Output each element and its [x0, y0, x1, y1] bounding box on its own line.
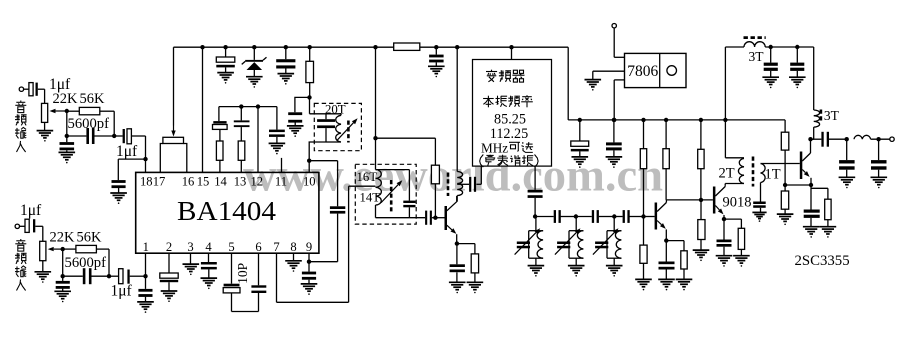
pin 2 label — [166, 240, 172, 254]
capacitor electrolytic pin14 — [213, 121, 228, 129]
transistor Q3 2SC3355 base bar — [800, 152, 803, 180]
capacitor Q3 emitter — [804, 185, 820, 227]
capacitor Q1 emitter — [450, 244, 465, 283]
pin 11 label — [275, 175, 287, 189]
ground pot ch2 — [35, 272, 52, 283]
pin 15 label — [197, 175, 210, 189]
IC U1 BA1404 body — [136, 172, 319, 253]
wire Q2 collector to 9018 base — [666, 199, 713, 201]
node V+ elco — [578, 118, 582, 122]
node rail box — [509, 45, 513, 49]
pin 9 label — [306, 240, 312, 254]
ground Q3 emitter cap — [803, 227, 820, 238]
ground Q2 emitter res — [676, 279, 693, 290]
resistor feed 20T — [306, 47, 314, 97]
node tank3 — [612, 214, 616, 218]
capacitor electrolytic pin2 — [160, 253, 178, 291]
capacitor electrolytic rail — [216, 47, 235, 72]
resistor Q2 collector load — [663, 120, 669, 200]
wire 56K right down ch2 — [108, 249, 110, 276]
pin 10 label — [303, 175, 316, 189]
label 5600pf ch2 — [65, 255, 107, 271]
svg-text:20T: 20T — [325, 103, 346, 117]
wire pins5-6 loop — [232, 311, 259, 313]
wire 1T top to Q3 base — [761, 163, 800, 165]
wire box top to rail — [511, 47, 513, 59]
wire cap line lower — [309, 214, 338, 262]
tank rail seg1 — [535, 216, 554, 218]
wire SAW riser — [480, 166, 482, 184]
svg-text:56K: 56K — [77, 230, 103, 246]
potentiometer 22K ch1 — [42, 103, 67, 122]
inductor 3T vertical — [811, 47, 820, 139]
indicator circle 7806 — [667, 66, 677, 76]
ground pin4 — [201, 278, 218, 289]
node tank1 — [533, 214, 537, 218]
label 声表谐振 — [480, 155, 538, 168]
wire pin1 riser — [145, 253, 147, 276]
svg-text:1μf: 1μf — [116, 143, 138, 160]
resistor Q3 emitter — [811, 188, 831, 226]
capacitor out shunt 1 — [839, 139, 855, 177]
pin 1 label — [143, 240, 149, 254]
wiper arrow from rail — [171, 47, 175, 136]
wire V+ up right — [724, 47, 726, 120]
capacitor 5600pf ch1 — [67, 128, 114, 144]
capacitor mixer inject — [528, 190, 543, 217]
wire 56K right down ch1 — [113, 111, 115, 136]
label 1μf ch1 — [49, 76, 71, 93]
wire pot bottom ch2 — [42, 261, 44, 272]
svg-text:1μf: 1μf — [111, 283, 133, 300]
svg-text:16: 16 — [182, 175, 195, 189]
label 9018 — [723, 195, 752, 211]
wire q2 base — [644, 216, 655, 218]
inductor output — [854, 135, 871, 139]
transformer 1T secondary — [761, 164, 766, 183]
wire V+ rail end down — [784, 120, 786, 132]
wire pin15 to rail — [202, 47, 204, 172]
node tank2 — [574, 214, 578, 218]
pin 7 label — [273, 240, 279, 254]
capacitor sub-rail bypass — [269, 130, 285, 144]
core dashes 16T — [390, 180, 393, 214]
wire top rail to V+ rail — [567, 47, 569, 120]
node V+ R3 — [699, 118, 703, 122]
ground Q1 emitter cap — [449, 282, 466, 293]
transistor 9018 base bar — [713, 187, 716, 214]
svg-text:1: 1 — [143, 240, 149, 254]
svg-text:7806: 7806 — [627, 63, 658, 80]
svg-text:11: 11 — [275, 175, 287, 189]
capacitor Q2 emitter — [659, 241, 675, 280]
ground 9018 bias — [693, 250, 710, 261]
node rail R-20T — [308, 45, 312, 49]
ground 9018 emitter res — [733, 256, 750, 267]
svg-text:3T: 3T — [824, 108, 840, 123]
svg-text:7: 7 — [273, 240, 279, 254]
node Q2 base — [641, 214, 645, 218]
capacitor shunt ch2 — [56, 276, 70, 291]
node wiper ch1 — [65, 109, 69, 113]
box 20T (dashed) — [314, 103, 361, 150]
wire cap line upper — [337, 161, 339, 207]
pin 5 label — [228, 240, 234, 254]
inductor osc tank coil — [457, 47, 462, 202]
ground 9018 emitter cap — [716, 256, 733, 267]
inductor 20T — [326, 114, 341, 142]
ground Q1 emitter res — [467, 282, 484, 293]
wire osc node down — [375, 138, 377, 169]
inductor 3T horizontal — [725, 42, 813, 47]
input terminal J2 (audio in 2) — [15, 224, 25, 228]
svg-text:16T: 16T — [357, 170, 378, 184]
watermark www.eeworld.com.cn — [243, 150, 663, 202]
label 2SC3355 — [795, 253, 850, 269]
node 5600pf left ch1 — [65, 134, 69, 138]
capacitor 1μf input coupling ch2 — [25, 219, 35, 232]
transistor Q2 emitter — [657, 221, 666, 241]
wire cap to pot ch2 — [35, 226, 43, 241]
wire pin3 down — [190, 253, 192, 264]
capacitor output coupling — [811, 132, 847, 147]
svg-text:17: 17 — [153, 175, 166, 189]
svg-text:8: 8 — [290, 240, 296, 254]
resistor series top rail — [394, 43, 420, 50]
capacitor coupling t2-t3 — [592, 210, 615, 223]
resistor Q2 emitter — [666, 241, 687, 280]
core dashes 3T vert — [820, 110, 823, 123]
wire V+ to 2T primary — [725, 120, 744, 158]
label 10P — [235, 263, 250, 284]
ground cap3 rail — [278, 74, 295, 85]
wire rail to osc tank node — [375, 47, 377, 138]
capacitor out shunt 2 — [871, 139, 887, 177]
transformer 2T primary — [738, 159, 744, 184]
wire out — [871, 138, 890, 140]
capacitor rail bypass — [276, 47, 295, 73]
resistor 56K ch2 — [63, 245, 109, 252]
resistor Q1 emitter — [457, 244, 479, 283]
ground 3T cap2 — [789, 77, 806, 88]
ground Q2 emitter cap — [658, 279, 675, 290]
wire to pin18 — [145, 136, 147, 172]
label 22K ch1 — [53, 91, 79, 107]
resistor 56K ch1 — [67, 107, 114, 114]
box frequency note — [473, 60, 552, 167]
pin 4 label — [205, 240, 212, 254]
resistor 9018 bias upper — [698, 120, 704, 200]
node Q1 emitter — [455, 241, 459, 245]
transistor Q2 base bar — [655, 203, 658, 230]
svg-text:22K: 22K — [50, 230, 76, 246]
svg-text:22K: 22K — [53, 91, 79, 107]
tank rail seg2 — [576, 216, 592, 218]
label 音频输入 ch1 — [15, 101, 27, 153]
ground rail bypass mid — [428, 66, 445, 77]
capacitor 3T filter 1 — [764, 47, 778, 77]
LC tank 1 (var inductor+cap) — [515, 217, 544, 266]
ground V+ elco — [572, 157, 589, 168]
ground shunt ch1 — [59, 152, 76, 163]
ground out cap2 — [871, 177, 888, 188]
node 3T cap2 — [795, 45, 799, 49]
wire pin9 down — [308, 253, 310, 271]
label 3T vert — [824, 108, 840, 123]
node wiper ch2 — [61, 247, 65, 251]
wire box bottom down — [534, 166, 536, 190]
svg-text:9: 9 — [306, 240, 312, 254]
node V+ 2T — [723, 118, 727, 122]
resistor pin14 — [216, 129, 223, 172]
pin 16 label — [182, 175, 195, 189]
svg-text:1μf: 1μf — [20, 202, 42, 219]
node out cap2 — [876, 137, 880, 141]
pin 8 label — [290, 240, 296, 254]
resistor 9018 bias lower — [698, 200, 705, 250]
node Q2 emitter — [664, 238, 668, 242]
wire divider to emitter — [785, 184, 811, 186]
core dashes osc — [447, 173, 450, 197]
ground 7806 — [585, 80, 602, 91]
label 20T — [325, 103, 346, 117]
svg-text:10P: 10P — [235, 263, 250, 284]
LC tank 3 (var inductor+cap) — [593, 217, 622, 266]
core dashes 2T-1T — [752, 157, 755, 187]
capacitor coupling t3-Q2 — [623, 210, 644, 223]
node 3T cap1 — [769, 45, 773, 49]
node rail osc-tank riser — [373, 45, 377, 49]
wire pin10 to cap line — [309, 160, 337, 162]
svg-text:1T: 1T — [765, 167, 781, 183]
ground bypass pin18 — [110, 193, 127, 204]
capacitor pin4 — [201, 253, 217, 278]
svg-text:56K: 56K — [80, 91, 106, 107]
node Q3 divider — [783, 183, 787, 187]
label 1μf ch2 — [20, 202, 42, 219]
wire tank bottom link — [376, 217, 410, 219]
inductor 16T/14T — [376, 170, 382, 218]
wire pot bottom ch1 — [44, 122, 46, 130]
wire tank top link — [376, 169, 410, 171]
capacitor 1T bottom — [753, 183, 766, 213]
capacitor 1μf input coupling ch1 — [29, 83, 38, 96]
pin 13 label — [234, 175, 247, 189]
core dashes 3T horiz — [744, 36, 766, 39]
resistor Q3 divider upper — [781, 132, 789, 185]
node V+ R1 — [641, 118, 645, 122]
wire into 20T box — [310, 97, 342, 113]
wire pin14 chain — [218, 107, 220, 122]
wire wiper down ch2 — [62, 249, 64, 276]
node 56K right ch2 — [107, 274, 111, 278]
wire 7806 out — [614, 80, 624, 120]
ground pin3 — [183, 264, 200, 275]
resistor Q2 base lower — [640, 217, 647, 280]
wire sub-rail right down — [276, 107, 278, 130]
label 本振频率 — [483, 95, 533, 107]
capacitor SAW link — [469, 177, 481, 192]
capacitor bypass 20T — [288, 112, 302, 126]
ground 3T cap1 — [762, 77, 779, 88]
label 1μf series ch2 — [111, 283, 133, 300]
LC tank 2 (var inductor+cap) — [555, 217, 584, 266]
label 2T — [719, 166, 735, 182]
capacitor shunt ch1 — [60, 136, 75, 152]
label 85.25 — [494, 111, 526, 127]
ground pin9 — [301, 284, 318, 295]
box 16T/14T (dashed) — [355, 164, 416, 224]
label 56K ch1 — [80, 91, 106, 107]
node out cap1 — [845, 137, 849, 141]
capacitor 1μf series ch1 — [114, 129, 145, 144]
svg-text:2SC3355: 2SC3355 — [795, 253, 850, 269]
ground 1T — [752, 212, 766, 222]
svg-text:13: 13 — [234, 175, 247, 189]
label 变频器 — [486, 70, 525, 82]
svg-text:4: 4 — [205, 240, 212, 254]
capacitor pin10-pin9 link — [330, 206, 345, 213]
wire pin12 up — [257, 107, 259, 173]
node Q3 emitter — [809, 183, 813, 187]
label BA1404 — [177, 196, 277, 226]
transistor Q1 collector — [447, 196, 457, 211]
capacitor electrolytic pin5 — [223, 253, 240, 311]
svg-text:9018: 9018 — [723, 195, 752, 211]
node rail pin15 — [200, 45, 204, 49]
label 16T — [357, 170, 378, 184]
node rail zener — [252, 45, 256, 49]
wire branch left — [118, 159, 145, 180]
node rail elco — [223, 45, 227, 49]
arrow 20T adjustable — [337, 118, 358, 140]
resistor 9018 emitter — [724, 219, 745, 256]
svg-text:BA1404: BA1404 — [177, 196, 277, 226]
pin 17 label — [153, 175, 166, 189]
output terminal — [890, 137, 894, 141]
svg-text:2: 2 — [166, 240, 172, 254]
node rail bypass cap — [434, 45, 438, 49]
svg-text:10: 10 — [303, 175, 316, 189]
node 9018 emitter — [722, 217, 726, 221]
pin 12 label — [251, 175, 264, 189]
svg-text:3T: 3T — [749, 49, 765, 64]
node pin9 — [307, 260, 311, 264]
resistor Q1 bias — [376, 138, 440, 218]
label 22K ch2 — [50, 230, 76, 246]
label 3T horiz — [749, 49, 765, 64]
power input terminal — [612, 24, 616, 28]
capacitor 1μf series ch2 — [109, 269, 146, 284]
capacitor electrolytic V+ — [571, 120, 589, 157]
node pin18 branch — [143, 157, 147, 161]
node pin10 junction — [307, 159, 311, 163]
wire 20T bottom out — [309, 142, 326, 161]
label MHz可选 — [481, 140, 533, 155]
pin 18 label — [140, 175, 153, 189]
ground sub-rail — [269, 143, 286, 154]
capacitor 16T tank — [403, 170, 415, 218]
capacitor 20T tank — [317, 114, 335, 142]
svg-text:12: 12 — [251, 175, 264, 189]
ground Q3 emitter res — [820, 227, 837, 238]
wire cap to pot ch1 — [38, 89, 45, 103]
transistor 9018 collector — [715, 185, 725, 196]
label 5600pf ch1 — [68, 116, 110, 132]
node rail osc — [455, 45, 459, 49]
pin 6 label — [255, 240, 261, 254]
ground Q3 divider — [777, 214, 794, 225]
capacitor bypass pin18 — [112, 180, 126, 193]
tank rail seg3 — [614, 216, 622, 218]
V+ rail — [568, 119, 785, 121]
node R-20T bottom — [307, 95, 311, 99]
ground tank2 — [568, 266, 585, 277]
transistor Q2 collector — [657, 200, 666, 212]
transistor Q1 emitter — [447, 225, 457, 243]
svg-text:14: 14 — [214, 175, 227, 189]
pin 14 label — [214, 175, 227, 189]
capacitor 5600pf ch2 — [63, 268, 109, 284]
label 56K ch2 — [77, 230, 103, 246]
ground pin8 — [285, 261, 302, 272]
node V+ cap — [612, 118, 616, 122]
wire power in — [614, 28, 624, 57]
wire 7806 gnd — [593, 71, 625, 79]
capacitor pin9 bypass — [302, 272, 316, 284]
capacitor osc coupling — [425, 211, 444, 225]
label 14T — [360, 191, 381, 205]
node sub-rail pin12 — [256, 104, 260, 108]
label 112.25 — [490, 126, 529, 142]
node 5600pf left ch2 — [61, 274, 65, 278]
ground bypass pin1 — [137, 302, 154, 313]
IC 7806 body — [625, 53, 687, 87]
svg-text:5: 5 — [228, 240, 234, 254]
capacitor 3T filter 2 — [790, 47, 804, 77]
node osc top — [373, 136, 377, 140]
potentiometer 22K ch2 — [40, 241, 63, 260]
wire osc tap — [457, 183, 469, 185]
ground pot ch1 — [37, 131, 54, 142]
arrow 16T adjustable — [381, 180, 402, 202]
capacitor 9018 emitter — [717, 219, 732, 256]
wire tank out — [409, 217, 425, 219]
svg-text:MHz: MHz — [481, 140, 508, 155]
wire pin10 up — [308, 161, 310, 173]
capacitor coupling t1-t2 — [554, 210, 576, 223]
wire branch to bypass cap — [295, 97, 310, 112]
svg-text:6: 6 — [255, 240, 261, 254]
capacitor bypass pin1 — [138, 276, 152, 302]
ground tank1 — [528, 266, 545, 277]
ground V+ cap — [606, 157, 623, 168]
ground tank3 — [606, 266, 623, 277]
label 音频输入 ch2 — [15, 239, 27, 291]
node V+ R2 — [664, 118, 668, 122]
pin 3 label — [187, 240, 193, 254]
node 7806 out — [612, 118, 616, 122]
capacitor rail bypass mid — [429, 47, 444, 66]
ground bypass 20T — [287, 126, 304, 137]
resistor Q3 divider lower — [781, 185, 788, 214]
ground Q2 base res — [635, 279, 652, 290]
wire wiper down ch1 — [66, 111, 68, 136]
svg-text:18: 18 — [140, 175, 153, 189]
zener diode rail — [242, 47, 267, 76]
node Q3 collector — [808, 137, 812, 141]
wire pin11 stub — [281, 158, 283, 173]
